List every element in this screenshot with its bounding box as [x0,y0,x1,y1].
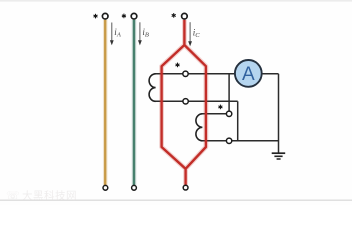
polarity mark CT1 secondary [176,63,180,68]
terminal: phase B bottom [132,185,137,190]
polarity mark phase A [94,14,98,19]
terminal: phase C bottom [183,185,188,190]
svg-text:大黑科技网: 大黑科技网 [22,189,77,202]
terminal: phase A bottom [103,185,108,190]
terminal: CT1 secondary S1 [183,71,188,76]
polarity mark phase B [122,14,126,19]
terminal: phase A top [102,13,108,19]
ground symbol [272,153,286,159]
black wire: CT2 top secondary lead [201,113,229,115]
black wire: vertical tie CT1-bottom to CT2-bottom [237,101,239,141]
terminal: phase B top [131,13,137,19]
black wire: CT1 top secondary lead to ammeter [155,73,235,75]
svg-text:A: A [242,64,255,85]
terminal: CT2 secondary S1 [226,111,231,116]
black wire: vertical tie CT1-top to CT2-top terminal [228,74,230,112]
current arrow iC [188,22,192,46]
phase A conductor (yellow) [103,20,108,185]
terminal: CT1 secondary S2 [183,99,188,104]
ammeter A1 [235,60,262,87]
terminal: phase C top [182,13,188,19]
svg-text:☏: ☏ [6,190,20,202]
black wire: vertical down to ground [278,74,280,153]
top page border [0,0,352,2]
bottom page rule [0,200,352,201]
polarity mark phase C [172,13,176,18]
current arrow iB [138,22,142,45]
polarity mark CT2 secondary [218,105,222,110]
phase C conductor (red) split loop [162,20,206,185]
CT2 secondary winding (coil on right red branch) [196,114,202,141]
current arrow iA [110,23,114,46]
black wire: CT2 bottom secondary lead to ground bus [201,140,278,142]
black wire: CT1 bottom secondary lead [155,100,238,102]
phase B conductor (green) [132,20,137,185]
CT1 secondary winding (coil on left red branch) [149,74,156,102]
watermark logo [6,189,77,202]
black wire: ammeter right lead [262,73,279,75]
terminal: CT2 secondary S2 [226,138,231,143]
